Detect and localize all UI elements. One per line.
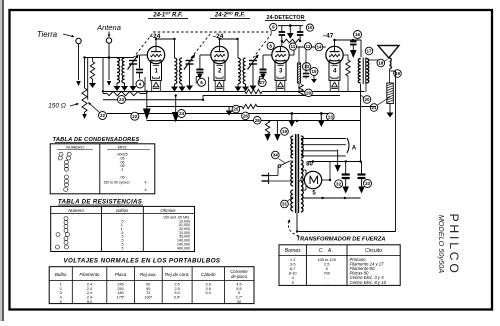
svg-text:Filamento: Filamento: [79, 272, 100, 277]
svg-text:C. A.: C. A.: [319, 248, 335, 254]
svg-text:2: 2: [218, 68, 222, 75]
svg-text:25: 25: [233, 107, 239, 112]
svg-text:de placa: de placa: [231, 274, 248, 279]
svg-text:5.0: 5.0: [174, 291, 179, 295]
svg-text:0: 0: [238, 291, 240, 295]
svg-text:NUMERO: NUMERO: [66, 144, 84, 149]
svg-text:29: 29: [306, 91, 312, 96]
svg-text:1: 1: [60, 282, 62, 286]
svg-text:2.7*: 2.7*: [236, 296, 243, 300]
svg-text:18: 18: [378, 61, 384, 66]
svg-text:.05: .05: [119, 175, 124, 179]
svg-text:12: 12: [305, 44, 311, 49]
svg-text:33: 33: [365, 181, 371, 186]
svg-text:PHILCO: PHILCO: [447, 214, 461, 276]
svg-text:490,000: 490,000: [177, 246, 190, 250]
svg-text:150 to 60 cycles!: 150 to 60 cycles!: [103, 181, 129, 185]
svg-text:2.4: 2.4: [87, 296, 92, 300]
svg-text:21: 21: [371, 105, 377, 110]
svg-text:245: 245: [117, 282, 123, 286]
svg-text:Rej.aux.: Rej.aux.: [140, 272, 157, 277]
svg-text:19: 19: [282, 129, 288, 134]
svg-text:32: 32: [336, 181, 342, 186]
svg-text:90: 90: [146, 282, 150, 286]
svg-text:5.0: 5.0: [87, 300, 92, 304]
svg-text:5.5: 5.5: [236, 287, 241, 291]
svg-text:23: 23: [119, 97, 125, 102]
svg-text:Antena: Antena: [96, 23, 121, 32]
svg-text:175*: 175*: [117, 296, 125, 300]
svg-text:4: 4: [139, 82, 142, 87]
svg-text:15: 15: [311, 69, 317, 74]
svg-text:6: 6: [200, 80, 203, 85]
svg-text:Centro Elec. 8 y 10: Centro Elec. 8 y 10: [350, 280, 387, 285]
svg-text:Ohmios: Ohmios: [160, 208, 176, 213]
svg-text:Circuito: Circuito: [365, 248, 382, 254]
svg-text:TABLA DE CONDENSADORES: TABLA DE CONDENSADORES: [53, 137, 140, 143]
svg-text:.5: .5: [121, 246, 124, 250]
svg-text:4.: 4.: [144, 188, 147, 192]
svg-text:13: 13: [304, 64, 310, 69]
svg-text:31: 31: [282, 202, 288, 207]
svg-text:2.5: 2.5: [174, 287, 179, 291]
svg-text:28: 28: [255, 118, 261, 123]
svg-text:MFD.: MFD.: [118, 144, 128, 149]
svg-text:4: 4: [333, 68, 337, 75]
svg-text:. . .: . . .: [324, 280, 329, 285]
svg-text:3.6: 3.6: [206, 282, 211, 286]
svg-text:34: 34: [273, 153, 279, 158]
svg-text:Tierra: Tierra: [37, 30, 58, 39]
svg-text:TRANSFORMADOR DE FUERZA: TRANSFORMADOR DE FUERZA: [297, 237, 386, 243]
svg-text:30: 30: [237, 300, 241, 304]
svg-text:22: 22: [132, 114, 138, 119]
svg-text:–47: –47: [323, 33, 334, 40]
svg-text:9: 9: [272, 25, 275, 30]
svg-text:4: 4: [60, 296, 62, 300]
svg-text:3: 3: [279, 68, 283, 75]
svg-text:Numero: Numero: [68, 208, 84, 213]
svg-text:180: 180: [117, 291, 123, 295]
svg-text:16: 16: [355, 32, 361, 37]
svg-text:10: 10: [307, 25, 313, 30]
svg-text:4.5: 4.5: [236, 282, 241, 286]
svg-text:A: A: [352, 146, 357, 152]
svg-text:5.0: 5.0: [206, 291, 211, 295]
svg-text:Placa: Placa: [115, 272, 127, 277]
svg-text:Bulbo: Bulbo: [55, 272, 67, 277]
svg-text:2.4: 2.4: [87, 291, 92, 295]
svg-text:190*: 190*: [144, 296, 152, 300]
svg-text:150 Ω: 150 Ω: [48, 103, 66, 110]
svg-text:MODELO 50y50A: MODELO 50y50A: [437, 215, 446, 274]
svg-text:voltios: voltios: [116, 208, 129, 213]
svg-text:Bornes: Bornes: [285, 248, 301, 254]
svg-text:24: 24: [179, 111, 185, 116]
svg-text:VOLTAJES NORMALES EN LOS P: VOLTAJES NORMALES EN LOS PORTABULBOS: [64, 258, 221, 265]
svg-text:90: 90: [146, 287, 150, 291]
svg-text:20: 20: [364, 97, 370, 102]
svg-text:0.9*: 0.9*: [174, 296, 181, 300]
svg-text:27: 27: [260, 80, 266, 85]
svg-text:Cátodo: Cátodo: [201, 272, 216, 277]
svg-text:22: 22: [100, 113, 106, 118]
svg-text:3: 3: [60, 291, 62, 295]
svg-text:5: 5: [60, 300, 62, 304]
svg-text:2.4: 2.4: [87, 287, 92, 291]
svg-text:4.: 4.: [144, 181, 147, 185]
svg-text:2: 2: [60, 287, 62, 291]
svg-text:8: 8: [269, 44, 272, 49]
svg-text:17: 17: [366, 49, 372, 54]
svg-text:24-DETECTOR: 24-DETECTOR: [266, 15, 304, 21]
svg-text:2.4: 2.4: [87, 282, 92, 286]
svg-text:11: 11: [290, 44, 295, 49]
svg-text:72: 72: [146, 291, 150, 295]
svg-text:3.6: 3.6: [206, 287, 211, 291]
svg-text:250: 250: [117, 287, 123, 291]
svg-text:14: 14: [316, 45, 322, 50]
svg-text:26: 26: [243, 114, 249, 119]
svg-text:2.5: 2.5: [174, 282, 179, 286]
svg-text:13: 13: [328, 114, 334, 119]
svg-text:9: 9: [292, 280, 294, 285]
svg-text:1: 1: [154, 68, 158, 75]
svg-text:.1: .1: [120, 168, 123, 172]
svg-text:Rej.de cont.: Rej.de cont.: [165, 272, 190, 277]
svg-text:TABLA DE RESISTENCIAS: TABLA DE RESISTENCIAS: [58, 199, 143, 206]
